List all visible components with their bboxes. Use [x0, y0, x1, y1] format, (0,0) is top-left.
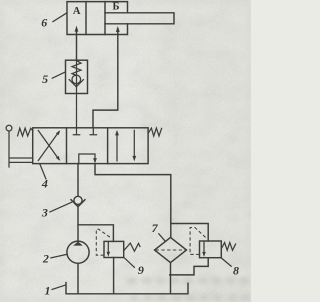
cylinder rod: [105, 13, 174, 24]
wire T line valve to filter: [95, 164, 171, 238]
check valve 5 through line: [76, 60, 78, 128]
label 4: [40, 164, 48, 191]
directional valve 4 body: [33, 128, 148, 164]
label 6: [41, 13, 67, 30]
check valve 5 ball: [72, 75, 81, 84]
label 2: [42, 252, 67, 266]
wire relief valve 9 drain to tank: [113, 258, 115, 294]
chamber label А: [73, 6, 81, 17]
svg-text:6: 6: [41, 16, 47, 30]
check valve 3 ball: [74, 196, 82, 204]
svg-text:1: 1: [45, 284, 51, 298]
check valve 5 spring: [72, 61, 81, 76]
relief valve 9 pilot line: [96, 229, 111, 255]
valve 4 right spring: [148, 128, 161, 136]
wire filter drain to tank: [170, 263, 172, 294]
svg-text:3: 3: [41, 206, 48, 220]
chamber label Б: [113, 2, 120, 13]
check valve 5 seat: [69, 80, 83, 87]
svg-text:9: 9: [138, 263, 144, 277]
wire pump suction to tank: [77, 263, 79, 294]
svg-text:7: 7: [152, 221, 159, 235]
wire branch to relief valve 8: [171, 224, 208, 242]
valve 4 manual plunger actuator: [6, 125, 33, 167]
valve 4 left spring: [18, 128, 33, 136]
relief valve 8 pilot line: [190, 228, 206, 255]
wire check valve 3 to pump: [77, 207, 79, 242]
wire port B riser from cylinder: [93, 26, 120, 128]
wire relief valve 8 drain: [170, 258, 209, 275]
relief valve 8 flow arrow: [202, 242, 206, 257]
wire P line valve to check valve 3: [77, 164, 79, 197]
check valve 5 box: [66, 60, 88, 93]
relief valve 9 flow arrow: [107, 243, 111, 257]
hydraulic cylinder 6 body: [67, 2, 128, 35]
relief valve 8 box: [200, 241, 222, 258]
label 5: [42, 72, 65, 86]
svg-text:Б: Б: [113, 2, 120, 13]
valve 4 centre position bypass U: [79, 154, 97, 164]
svg-text:А: А: [73, 6, 81, 17]
label 9: [124, 258, 143, 277]
label 8: [221, 258, 239, 278]
svg-text:5: 5: [42, 72, 48, 86]
relief valve 9 box: [104, 241, 124, 257]
label 1: [45, 284, 66, 298]
valve 4 right position arrows: [115, 130, 136, 162]
tank 1: [66, 283, 188, 294]
wire port A to cylinder with arrow: [75, 26, 79, 61]
relief valve 8 spring: [222, 243, 236, 251]
relief valve 9 spring: [124, 243, 140, 251]
filter 7: [155, 237, 187, 262]
check valve 3 seat: [71, 200, 85, 207]
svg-text:8: 8: [233, 264, 239, 278]
valve 4 centre position blocked ports: [73, 128, 96, 135]
wire branch to relief valve 9: [78, 225, 113, 242]
svg-text:2: 2: [42, 252, 49, 266]
pump 2: [67, 241, 89, 263]
cylinder piston: [86, 2, 105, 35]
label 3: [41, 202, 72, 219]
label 7: [152, 221, 166, 242]
valve 4 left position crossed arrows: [38, 130, 60, 161]
svg-text:4: 4: [41, 177, 48, 191]
